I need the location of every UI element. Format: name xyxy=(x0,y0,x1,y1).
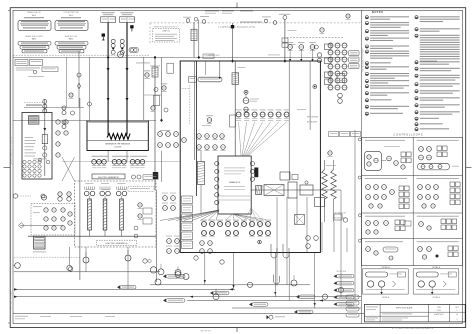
svg-text:GENERATOR TPE WINDINGS: GENERATOR TPE WINDINGS xyxy=(105,143,131,146)
svg-text:NOTES: NOTES xyxy=(372,10,383,14)
svg-text:DETAIL A: DETAIL A xyxy=(433,296,441,299)
svg-text:THE HIGH SEAL FLOW PUMP: THE HIGH SEAL FLOW PUMP xyxy=(362,47,365,71)
svg-text:SPT DEL CLUE: SPT DEL CLUE xyxy=(335,213,346,215)
svg-text:BM-1: BM-1 xyxy=(69,38,74,40)
svg-text:BY DEL CLUE: BY DEL CLUE xyxy=(335,218,345,220)
svg-text:ALARM SHALL OIL TO FLOW SET: ALARM SHALL OIL TO FLOW SET xyxy=(10,135,13,164)
svg-text:1: 1 xyxy=(457,310,458,312)
svg-text:DETAIL A: DETAIL A xyxy=(382,266,391,269)
svg-text:BY DELIVER: BY DELIVER xyxy=(307,122,318,124)
svg-text:COOLER: COOLER xyxy=(114,147,122,149)
svg-text:GEAR BOX: GEAR BOX xyxy=(229,181,241,184)
svg-text:36 OIL CLUE: 36 OIL CLUE xyxy=(337,271,346,273)
svg-text:LUBE OIL: LUBE OIL xyxy=(162,31,170,33)
svg-text:TURBOGEN BASEPLATE: TURBOGEN BASEPLATE xyxy=(218,25,255,29)
svg-text:DETAIL A: DETAIL A xyxy=(382,296,390,299)
svg-text:SPT DELIVER: SPT DELIVER xyxy=(307,117,319,119)
svg-text:SET PUMP TO SHALL: SET PUMP TO SHALL xyxy=(10,291,13,309)
svg-text:0: 0 xyxy=(457,319,458,321)
svg-text:LINE: LINE xyxy=(437,307,441,309)
svg-text:ALARM THE COOLER: ALARM THE COOLER xyxy=(25,35,43,38)
svg-text:C O N T R O L L O O P S: C O N T R O L L O O P S xyxy=(393,133,422,137)
svg-text:BY TO CASE COOLER LINE PRESS H: BY TO CASE COOLER LINE PRESS HIGH VALVE … xyxy=(392,327,434,330)
svg-text:Rx-1: Rx-1 xyxy=(69,15,73,17)
svg-text:ELECTRIC GENERATOR: ELECTRIC GENERATOR xyxy=(106,242,128,245)
svg-text:ELECTRIC GENERATOR: ELECTRIC GENERATOR xyxy=(98,176,119,179)
svg-text:BM-1: BM-1 xyxy=(32,38,37,40)
svg-text:SHT: SHT xyxy=(455,307,458,309)
svg-text:DETAIL A: DETAIL A xyxy=(432,266,441,269)
svg-text:Rx-1: Rx-1 xyxy=(32,15,36,17)
svg-text:DRAIN LEVEL OIL: DRAIN LEVEL OIL xyxy=(27,11,41,14)
svg-text:LEVEL: LEVEL xyxy=(437,310,442,312)
svg-text:LINE TRIP SET: LINE TRIP SET xyxy=(200,331,211,333)
